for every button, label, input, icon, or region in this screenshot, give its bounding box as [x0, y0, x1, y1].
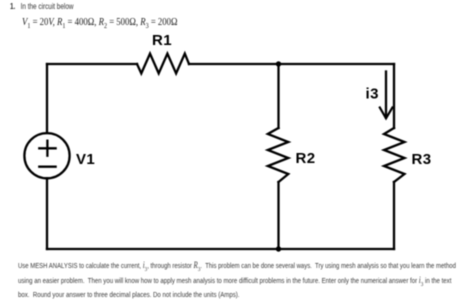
svg-text:R2: R2 — [296, 150, 316, 167]
svg-text:V1: V1 — [76, 151, 95, 168]
svg-text:R3: R3 — [412, 151, 432, 168]
svg-text:R1: R1 — [152, 32, 172, 49]
svg-text:i3: i3 — [366, 86, 379, 103]
